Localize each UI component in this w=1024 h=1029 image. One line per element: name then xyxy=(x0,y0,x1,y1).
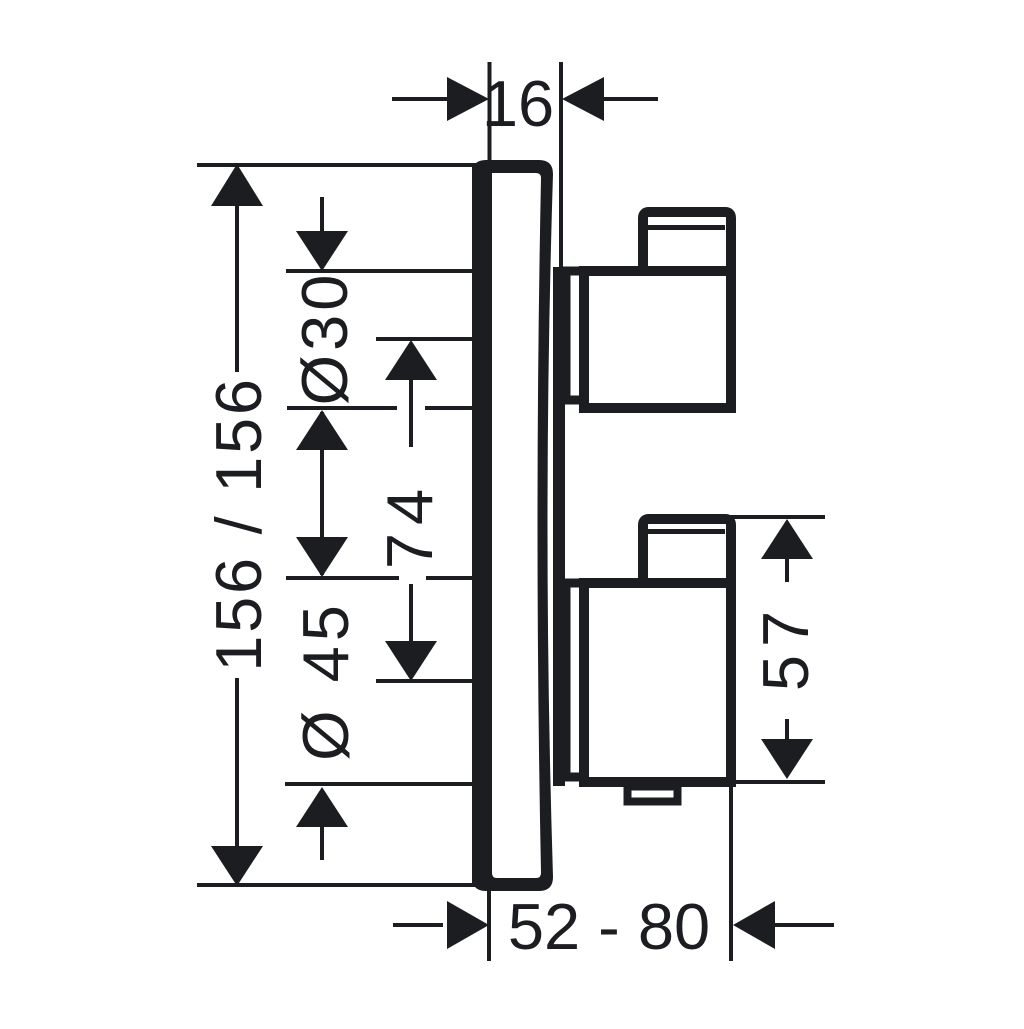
dim D45: lower tail xyxy=(320,825,324,860)
svg-text:16: 16 xyxy=(482,67,554,140)
dim D30: top extension line xyxy=(286,269,474,273)
dim D30: upper tail xyxy=(320,197,324,233)
dim D30: upper arrowhead (down) xyxy=(296,231,348,271)
dim 16: left arrowhead xyxy=(447,77,489,121)
dim D30/D45: middle dimension line xyxy=(320,412,324,575)
dim 74: lower arrowhead (down) xyxy=(385,641,437,681)
dim 74: top extension line xyxy=(376,337,474,341)
dim 156/156: lower line segment xyxy=(235,678,239,848)
dim D45: lower arrowhead (up) xyxy=(296,787,348,827)
dim 74: upper tail xyxy=(409,378,413,447)
dim 57: upper tail xyxy=(785,557,789,582)
dim D30: lower arrowhead (up) xyxy=(296,410,348,450)
dim 52-80: left extension line xyxy=(487,887,491,961)
svg-text:156 / 156: 156 / 156 xyxy=(202,376,275,671)
dim 57: lower tail xyxy=(785,719,789,741)
dim 156/156: top extension line xyxy=(197,163,480,167)
svg-text:57: 57 xyxy=(749,603,822,691)
dim 57: lower arrowhead (down) xyxy=(761,739,813,779)
dim 74: upper arrowhead (up) xyxy=(385,340,437,380)
dim 156/156: bottom arrowhead xyxy=(211,846,263,886)
dim D45: top extension line left part xyxy=(286,576,399,580)
dim 57: upper arrowhead (up) xyxy=(761,519,813,559)
dim 52-80: right extension line xyxy=(729,787,733,961)
bottom knob base xyxy=(584,583,731,782)
dim D45: bottom extension line xyxy=(285,782,474,786)
dim D45: top extension line right part xyxy=(426,576,474,580)
dim 74: lower tail xyxy=(409,584,413,643)
svg-text:Ø30: Ø30 xyxy=(288,271,361,406)
dim 16: right arrowhead xyxy=(562,77,604,121)
dim 52-80: right tail xyxy=(775,923,834,927)
dim 57: top extension line xyxy=(730,515,825,519)
svg-text:52 - 80: 52 - 80 xyxy=(508,890,710,963)
bottom fixing tab xyxy=(628,787,678,802)
top knob handle xyxy=(643,212,731,274)
dim D30: bottom extension line right part xyxy=(425,406,474,410)
dim 74: bottom extension line xyxy=(376,679,474,683)
dim 156/156: upper line segment xyxy=(235,204,239,372)
dim D30: bottom extension line left part xyxy=(287,406,397,410)
dim 16: left extension line xyxy=(488,62,492,163)
dim 57: bottom extension line xyxy=(727,780,825,784)
dim 16: right tail xyxy=(602,97,658,101)
svg-text:74: 74 xyxy=(373,481,446,569)
dim 52-80: right arrowhead (left) xyxy=(733,901,775,949)
escutcheon plate (side view, rounded rectangle with thick wall-side edge) xyxy=(472,160,553,891)
top knob handle parting line xyxy=(647,225,725,230)
bottom knob stem sleeve xyxy=(566,583,584,777)
valve body column behind plate xyxy=(553,267,565,786)
dim 156/156: bottom extension line xyxy=(197,883,528,887)
dim 16: right extension line xyxy=(559,62,563,270)
dim 52-80: left arrowhead (right) xyxy=(447,901,489,949)
top knob base xyxy=(584,271,731,408)
plate left thick band xyxy=(472,167,492,885)
svg-text:Ø 45: Ø 45 xyxy=(289,600,362,761)
bottom knob handle parting line xyxy=(647,529,725,534)
bottom knob handle xyxy=(643,519,731,586)
dim 156/156: top arrowhead xyxy=(211,164,263,206)
dim 52-80: left tail xyxy=(393,923,443,927)
dim D45: upper arrowhead (down) xyxy=(296,537,348,577)
top knob stem sleeve xyxy=(566,271,584,400)
dim 16: left tail xyxy=(392,97,447,101)
